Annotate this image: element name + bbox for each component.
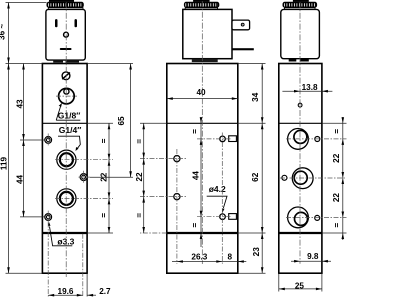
right view: small top hole bbox=[298, 103, 302, 107]
left view right column: port extension lines bbox=[55, 159, 113, 161]
dimension 43 : line and arrows bbox=[23, 64, 25, 141]
svg-text:23: 23 bbox=[252, 247, 261, 257]
left view: port 2 (G1/4) bbox=[57, 189, 76, 208]
right view: valve body outline bbox=[279, 64, 322, 274]
svg-text:65: 65 bbox=[117, 116, 126, 126]
left view: coil flange band bbox=[48, 8, 83, 10]
left view: centerline bbox=[65, 2, 67, 277]
dimension 36~ : extension lines bbox=[6, 2, 47, 4]
left view: connector slot left bbox=[55, 19, 58, 27]
svg-text:=: = bbox=[191, 223, 200, 228]
middle view = / 44 / = column bbox=[200, 117, 202, 247]
left view: pilot screw bbox=[62, 72, 70, 80]
svg-text:40: 40 bbox=[196, 88, 206, 97]
left view: mounting screw B bbox=[80, 174, 87, 181]
left view: port G1/8 circle bbox=[59, 88, 75, 104]
middle view: cable bar bbox=[232, 48, 254, 50]
right view: port 3 bbox=[288, 207, 309, 228]
dimension 19.6 / 2.7 : extension lines bbox=[47, 223, 49, 297]
right view dim column = / 22 / 22 / = bbox=[342, 117, 344, 240]
dimension = / 22 / = column (left view) bbox=[108, 123, 110, 233]
svg-text:8: 8 bbox=[228, 252, 233, 261]
middle view: left pilot hole 1 bbox=[174, 156, 180, 162]
left view: coil cap bbox=[49, 0, 74, 2]
dimension 26.3 / 8 : line arrows text bbox=[172, 261, 246, 263]
svg-text:44: 44 bbox=[191, 171, 200, 181]
middle view right column 34 / 62 / 23 : extensions bbox=[238, 63, 266, 65]
right view: horizontal ext rows bbox=[286, 138, 347, 140]
dimension 34 / 62 / 23 : line arrows bbox=[261, 64, 263, 274]
svg-text:22: 22 bbox=[135, 172, 144, 182]
svg-text:13.8: 13.8 bbox=[302, 83, 318, 92]
svg-text:26.3: 26.3 bbox=[191, 252, 207, 261]
right view: small hole left of port 2 bbox=[282, 175, 287, 180]
right view: coil feet bbox=[289, 59, 297, 62]
right view: coil flange band bbox=[285, 8, 316, 10]
svg-text:=: = bbox=[191, 129, 200, 134]
left view: body divider 1 bbox=[42, 122, 87, 124]
svg-text:22: 22 bbox=[332, 153, 341, 163]
svg-text:=: = bbox=[333, 223, 342, 228]
dimension 119 : line and arrows bbox=[8, 64, 10, 274]
right view: port 2 bbox=[292, 168, 313, 189]
left view: G1/4 label leader arrow bbox=[58, 136, 80, 149]
middle view: centerline bbox=[201, 1, 203, 264]
middle view: left pilot hole 2 bbox=[174, 194, 180, 200]
svg-text:=: = bbox=[333, 129, 342, 134]
right view: port 1 bbox=[288, 129, 309, 150]
svg-text:119: 119 bbox=[0, 156, 9, 170]
left view: knurled nut bbox=[47, 2, 84, 8]
right view: small hole right of port 1 bbox=[315, 137, 320, 142]
left view: mounting screw A bbox=[45, 137, 52, 144]
middle view: vertical centerline through right holes bbox=[221, 133, 223, 264]
right view: centerline bbox=[299, 2, 301, 264]
dimension 2.7 : line and arrow bbox=[87, 294, 96, 296]
svg-text:19.6: 19.6 bbox=[58, 287, 74, 296]
left view: body divider 2 (thick) bbox=[42, 232, 87, 234]
left view: G1/8 label leader arrow bbox=[56, 119, 80, 121]
dimension 19.6 : line and arrows bbox=[48, 294, 83, 296]
left view: connector slot right bbox=[75, 19, 78, 27]
right view: knurled nut bbox=[283, 2, 318, 8]
dimension 65 : line and arrows bbox=[87, 63, 133, 65]
right view: coil cap bbox=[293, 0, 309, 2]
middle view: coil flange band bbox=[185, 8, 217, 10]
dimension 43 : extension bbox=[20, 139, 45, 141]
svg-text:G1/8″: G1/8″ bbox=[58, 110, 81, 120]
middle view: coil feet bbox=[192, 59, 218, 62]
middle view: coil outline bbox=[183, 9, 232, 58]
dimension 9.8 : line arrows text bbox=[291, 260, 331, 262]
left view: screw crosshairs bbox=[47, 134, 49, 147]
dimension 25 : extensions line arrows text bbox=[278, 273, 280, 291]
right view: coil outline bbox=[281, 9, 320, 58]
svg-text:44: 44 bbox=[15, 175, 24, 185]
middle view: horizontal ext through left holes bbox=[140, 158, 187, 160]
dimension 13.8 : line arrows text bbox=[282, 90, 332, 92]
svg-text:36 ~: 36 ~ bbox=[0, 24, 7, 40]
svg-text:=: = bbox=[135, 139, 144, 144]
middle view: DIN connector bbox=[232, 20, 250, 30]
svg-text:43: 43 bbox=[16, 99, 25, 109]
svg-text:62: 62 bbox=[251, 172, 260, 182]
middle view: horizontal ext through right holes bbox=[197, 138, 232, 140]
svg-text:=: = bbox=[135, 213, 144, 218]
dimension 36~ : line and arrows bbox=[8, 3, 10, 64]
middle view: right hole 1 with tab bbox=[220, 136, 226, 142]
left view: ø3.3 label leader arrow bbox=[50, 227, 73, 246]
left view: port G1/8 small hole bbox=[64, 89, 69, 94]
right view: small hole right of port 3 bbox=[315, 215, 320, 220]
svg-text:2.7: 2.7 bbox=[99, 287, 111, 296]
svg-text:ø4.2: ø4.2 bbox=[209, 184, 226, 194]
right view: body divider 2 (thick) bbox=[279, 232, 322, 234]
svg-text:=: = bbox=[100, 213, 109, 218]
svg-text:34: 34 bbox=[251, 92, 260, 102]
dimension 44 : line and arrows bbox=[23, 140, 25, 217]
left view: connector center screw bbox=[64, 32, 69, 37]
middle view: vertical centerline through left holes bbox=[176, 149, 178, 264]
middle view: ø4.2 label leader arrow bbox=[207, 196, 227, 208]
right view: body divider 1 bbox=[279, 122, 322, 124]
svg-text:G1/4″: G1/4″ bbox=[59, 125, 82, 135]
svg-text:22: 22 bbox=[332, 193, 341, 203]
left view: coil face outline bbox=[46, 9, 85, 60]
middle view: body divider 1 bbox=[167, 122, 238, 124]
left view: port 1 (G1/4) bbox=[57, 150, 76, 169]
middle view left dim column = / 22 / = bbox=[140, 122, 167, 124]
left view: mounting screw C bbox=[45, 214, 52, 221]
svg-text:=: = bbox=[100, 138, 109, 143]
left view: coil feet bbox=[53, 60, 63, 63]
middle view: right hole 2 with tab bbox=[220, 214, 226, 220]
svg-text:9.8: 9.8 bbox=[307, 252, 319, 261]
middle view: valve body outline bbox=[167, 64, 238, 274]
middle view: knurled nut bbox=[184, 2, 219, 8]
dimension 40 : line arrows text bbox=[167, 98, 238, 100]
left view: port crosshair G1/8 bbox=[56, 95, 77, 97]
middle view: body divider 2 (thick) bbox=[167, 232, 238, 234]
left view: valve body outline bbox=[42, 64, 87, 274]
svg-text:25: 25 bbox=[295, 281, 305, 290]
left view: horizontal slot bbox=[60, 48, 72, 50]
middle view: coil cap bbox=[193, 0, 210, 2]
